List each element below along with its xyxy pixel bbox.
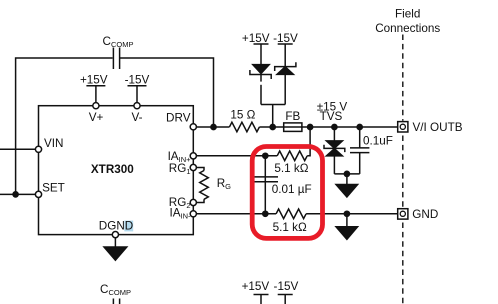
wire 15ohm to FB [259, 126, 283, 128]
svg-text:V+: V+ [89, 111, 104, 124]
ground below GND bus [336, 214, 358, 240]
svg-text:DGND: DGND [99, 220, 133, 233]
svg-text:5.1 kΩ: 5.1 kΩ [273, 221, 307, 234]
label DGND highlight [124, 221, 133, 232]
svg-text:-15V: -15V [274, 280, 299, 293]
junction 0.1uF tap [357, 124, 362, 129]
bottom repeat capacitor CCOMP plates [113, 299, 119, 304]
svg-text:GND: GND [412, 208, 438, 221]
op-amp U1 XTR300 box [39, 106, 194, 235]
bottom repeat +15V bar [254, 295, 269, 304]
ground below TVS [336, 174, 358, 197]
junction 0.01uF top [263, 153, 268, 158]
svg-text:VIN: VIN [44, 137, 63, 150]
junction TVS tap [332, 124, 337, 129]
wire DRV to 15ohm resistor [196, 126, 229, 128]
capacitor C 0.01uF [254, 156, 278, 214]
TVS bidirectional zener [324, 127, 345, 174]
resistor R 5.1k bottom [276, 209, 306, 219]
svg-text:TVS: TVS [320, 110, 343, 123]
power +15V clamp supply bar [254, 44, 269, 65]
svg-text:-15V: -15V [273, 32, 298, 45]
pin V- [134, 103, 140, 109]
ferrite bead FB [284, 123, 302, 131]
resistor R 5.1k top [277, 151, 307, 161]
wire SET external lead [0, 193, 35, 195]
svg-text:+15V: +15V [80, 73, 108, 86]
pin RG2 [190, 199, 196, 205]
wire CCOMP to DRV node [120, 58, 214, 127]
diode D1 zener from +15V [250, 65, 271, 105]
svg-text:DRV: DRV [166, 112, 191, 125]
svg-text:0.1uF: 0.1uF [363, 134, 393, 147]
resistor RG [196, 168, 208, 203]
capacitor CCOMP [113, 48, 119, 70]
junction feedback tap [308, 124, 313, 129]
junction at SET line [13, 192, 18, 197]
diode D2 zener from -15V [275, 62, 296, 104]
power +15V supply bar (V+) [86, 86, 105, 103]
svg-text:SET: SET [42, 181, 65, 194]
junction diode clamp node [270, 124, 275, 129]
svg-text:15 Ω: 15 Ω [230, 108, 255, 121]
svg-text:-15V: -15V [125, 73, 150, 86]
junction 0.01uF bottom [263, 211, 268, 216]
power -15V clamp supply bar [278, 44, 293, 67]
svg-text:5.1 kΩ: 5.1 kΩ [274, 162, 308, 175]
pin IAIN- [190, 211, 196, 217]
pin RG1 [190, 164, 196, 170]
capacitor C 0.1uF [350, 127, 369, 174]
wire VIN external lead [0, 148, 35, 150]
svg-text:+15V: +15V [242, 32, 270, 45]
pin DGND ground [104, 237, 127, 261]
svg-text:XTR300: XTR300 [91, 163, 134, 176]
junction ground bus [344, 171, 349, 176]
pin IAIN+ [190, 153, 196, 159]
svg-text:V-: V- [131, 111, 142, 124]
terminal V/I OUTB [398, 122, 408, 132]
svg-text:FB: FB [285, 110, 300, 123]
svg-text:Field: Field [395, 8, 420, 21]
svg-text:+15V: +15V [242, 280, 270, 293]
pin V+ [93, 103, 99, 109]
wire 5.1k bottom to GND terminal [306, 213, 398, 215]
svg-text:Connections: Connections [375, 22, 440, 35]
wire clamp to output line [272, 105, 274, 128]
pin DGND [112, 232, 118, 238]
pin SET [35, 191, 41, 197]
power -15V supply bar (V-) [128, 86, 147, 103]
resistor R 15 ohm [229, 122, 259, 132]
pin DRV [190, 124, 196, 130]
bottom repeat -15V bar [278, 295, 293, 304]
wire 5.1k top to output node [307, 127, 310, 156]
red highlight annotation [252, 147, 322, 239]
wire FB to terminal [302, 126, 398, 128]
svg-text:V/I OUTB: V/I OUTB [413, 121, 463, 134]
field connections dashed line [402, 35, 404, 304]
junction at DRV node [211, 124, 216, 129]
wire CCOMP feedback loop left/top [16, 58, 113, 194]
wire TVS/cap ground bus [334, 173, 359, 175]
junction GND bus [344, 211, 349, 216]
wire IAIN- to 5.1k bottom [196, 213, 276, 215]
terminal GND [398, 209, 408, 219]
wire diode clamp bottom bar [261, 104, 285, 106]
wire IAIN+ to 5.1k [196, 155, 277, 157]
pin VIN [35, 146, 41, 152]
svg-text:0.01 µF: 0.01 µF [272, 183, 312, 196]
